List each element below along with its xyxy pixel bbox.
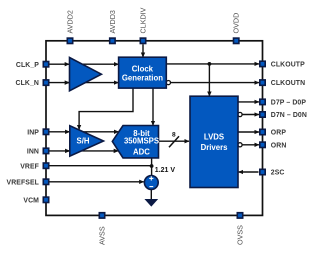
wire clock drop into LVDS Drivers	[208, 64, 210, 96]
clock generation block U-CG	[119, 57, 167, 88]
wire LVDS to ORN	[242, 144, 259, 146]
wire 2SC into LVDS	[239, 171, 259, 173]
pin CLKOUTN	[260, 80, 265, 85]
node junction on CLKOUTP wire	[208, 62, 212, 66]
pin VREFSEL	[43, 179, 48, 184]
pin D7P-D0P	[260, 99, 265, 104]
svg-text:D7P – D0P: D7P – D0P	[271, 100, 307, 107]
pin CLK_P	[43, 62, 48, 67]
pin ORP	[260, 129, 265, 134]
pin AVSS	[99, 213, 104, 218]
wire VREFSEL to reference source	[50, 181, 144, 183]
svg-text:Clock: Clock	[132, 64, 154, 73]
wire CLKDIV drop into Clock Generation	[142, 44, 144, 57]
wire Clock Generation to CLKOUTN	[170, 82, 259, 84]
bubble on CLKOUTN output	[166, 81, 170, 85]
svg-text:D7N – D0N: D7N – D0N	[271, 112, 307, 119]
pin OVSS	[237, 213, 242, 218]
wire LVDS to D7P-D0P	[238, 101, 259, 103]
wire clock branch to ADC	[152, 88, 154, 125]
pin D7N-D0N	[260, 112, 265, 117]
pin CLKDIV	[140, 38, 145, 43]
svg-text:CLKOUTN: CLKOUTN	[271, 80, 305, 87]
reference source 1.21 V	[144, 176, 158, 190]
node junction VREF	[150, 164, 154, 168]
pin CLK_N	[43, 80, 48, 85]
ground	[145, 199, 157, 206]
svg-text:INP: INP	[27, 129, 39, 136]
wire ADC bottom to reference	[151, 158, 153, 176]
svg-text:ORN: ORN	[271, 142, 287, 149]
pin VCM	[43, 197, 48, 202]
buffer amplifier (clock input)	[70, 58, 102, 91]
bubble on D7N-D0N output	[238, 112, 242, 116]
svg-text:AVDD2: AVDD2	[66, 10, 75, 33]
svg-text:1.21 V: 1.21 V	[155, 167, 176, 174]
pin CLKOUTP	[260, 61, 265, 66]
svg-text:AVSS: AVSS	[98, 226, 107, 245]
svg-text:CLK_N: CLK_N	[16, 80, 39, 87]
S/H block	[70, 126, 104, 156]
svg-text:Drivers: Drivers	[201, 143, 229, 152]
svg-text:VREFSEL: VREFSEL	[7, 179, 39, 186]
svg-text:2SC: 2SC	[271, 170, 285, 177]
pin 2SC	[260, 169, 265, 174]
wire INP to S/H and ADC	[50, 131, 119, 133]
pin AVDD2	[67, 38, 72, 43]
svg-text:8: 8	[172, 132, 176, 139]
wire LVDS to D7N-D0N	[242, 114, 259, 116]
wire CLK_N to buffer and Clock Generation	[50, 82, 119, 84]
svg-text:AVDD3: AVDD3	[108, 10, 117, 33]
pin VREF	[43, 163, 48, 168]
svg-text:OVDD: OVDD	[232, 13, 241, 34]
pin AVDD3	[110, 38, 115, 43]
wire VREF to reference node	[50, 165, 152, 167]
svg-text:Generation: Generation	[122, 73, 163, 82]
pin OVDD	[234, 38, 239, 43]
svg-text:VREF: VREF	[20, 163, 39, 170]
wire reference source to ground	[150, 189, 152, 199]
svg-text:VCM: VCM	[23, 197, 39, 204]
svg-text:350MSPS: 350MSPS	[124, 137, 159, 146]
wire Clock Generation to CLKOUTP	[166, 63, 259, 65]
wire clock branch to S/H	[79, 88, 133, 129]
svg-text:OVSS: OVSS	[236, 225, 245, 245]
pin INN	[43, 148, 48, 153]
svg-text:CLK_P: CLK_P	[16, 62, 39, 69]
bubble on ORN output	[238, 143, 242, 147]
wire INN to S/H and ADC	[50, 150, 119, 152]
svg-text:LVDS: LVDS	[204, 133, 224, 142]
wire ADC output bus to LVDS Drivers	[159, 140, 190, 142]
outer boundary box	[46, 41, 263, 216]
pin INP	[43, 129, 48, 134]
LVDS drivers block	[190, 96, 238, 187]
wire CLK_P to buffer and Clock Generation	[50, 63, 119, 65]
pin ORN	[260, 142, 265, 147]
svg-text:CLKOUTP: CLKOUTP	[271, 62, 305, 69]
svg-text:ORP: ORP	[271, 130, 287, 137]
wire LVDS to ORP	[238, 131, 259, 133]
ADC block	[112, 126, 159, 158]
svg-text:S/H: S/H	[77, 137, 90, 146]
bus slash	[169, 136, 179, 147]
svg-text:ADC: ADC	[133, 147, 150, 156]
svg-text:CLKDIV: CLKDIV	[139, 7, 148, 33]
svg-text:INN: INN	[27, 149, 39, 156]
